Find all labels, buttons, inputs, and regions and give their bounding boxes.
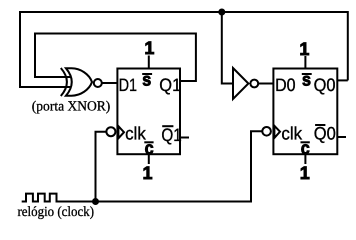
inverter U4: output bubble <box>250 80 258 88</box>
wire: XNOR output to D1 input <box>102 82 118 84</box>
svg-text:clk: clk <box>125 124 147 144</box>
svg-text:1: 1 <box>144 38 154 58</box>
svg-text:relógio (clock): relógio (clock) <box>18 205 95 220</box>
wire: clock branch up to FF1 clk bubble <box>96 132 107 202</box>
wire: FF1 set connector from 1 to s-bar <box>148 56 150 69</box>
svg-text:c: c <box>301 138 310 158</box>
wire: FF2 set connector from 1 to s-bar <box>304 56 306 69</box>
wire: Q-bar1 output stub <box>180 137 189 139</box>
svg-text:1: 1 <box>299 39 309 59</box>
node: junction dot on top feedback wire <box>218 9 225 16</box>
label Q-bar0: overline <box>315 124 325 126</box>
node: clock junction dot <box>92 198 99 205</box>
flip-flop U1 clk edge triangle <box>118 126 124 138</box>
xnor gate U3: OR body <box>66 68 92 95</box>
wire: Q-bar0 output stub <box>337 136 346 138</box>
wire: inner feedback from Q1 to XNOR upper input <box>35 34 196 82</box>
svg-text:Q1: Q1 <box>159 75 181 95</box>
clock waveform symbol <box>22 194 69 202</box>
svg-text:(porta XNOR): (porta XNOR) <box>32 100 111 115</box>
wire: FF2 clear connector from c-bar to 1 <box>304 154 306 164</box>
svg-text:Q1: Q1 <box>161 125 181 145</box>
svg-text:Q0: Q0 <box>314 75 336 95</box>
svg-text:s: s <box>142 70 151 90</box>
label c-bar FF2: overline <box>301 141 310 143</box>
flip-flop U1 clk bubble <box>106 127 115 136</box>
flip-flop U2 clk bubble <box>262 127 271 136</box>
svg-text:s: s <box>302 70 311 90</box>
label s-bar FF1: overline <box>142 73 152 75</box>
wire: inverter output to D0 input <box>258 83 273 85</box>
wire: tap from top wire down to inverter input <box>222 12 233 84</box>
label Q-bar1: overline <box>162 125 173 127</box>
inverter U4: triangle <box>233 68 248 99</box>
svg-text:1: 1 <box>300 163 310 183</box>
svg-text:Q0: Q0 <box>314 124 336 144</box>
label s-bar FF2: overline <box>302 73 312 75</box>
svg-text:clk: clk <box>281 123 303 143</box>
svg-text:D0: D0 <box>275 75 296 95</box>
flip-flop U1 box <box>117 69 180 155</box>
xnor gate U3: extra input arc <box>61 68 67 96</box>
wire: outer feedback from Q0 up across top to XNOR lower input <box>20 12 348 87</box>
label c-bar FF1: overline <box>144 141 153 143</box>
wire: Q0 output stub <box>337 79 348 81</box>
wire: clock line from waveform to FF2 clk bubble <box>69 131 262 201</box>
svg-text:c: c <box>145 138 154 158</box>
svg-text:D1: D1 <box>119 75 138 95</box>
flip-flop U2 box <box>273 69 337 155</box>
wire: FF1 clear connector from c-bar to 1 <box>148 154 150 164</box>
flip-flop U2 clk edge triangle <box>274 126 280 138</box>
xnor gate U3: output bubble <box>94 79 102 87</box>
svg-text:1: 1 <box>143 163 153 183</box>
